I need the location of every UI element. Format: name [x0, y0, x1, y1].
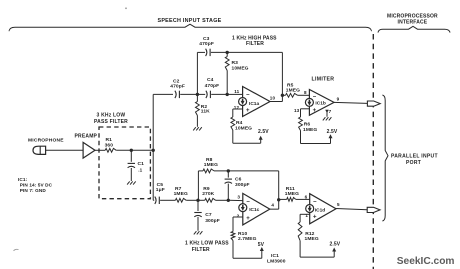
- svg-text:C4: C4: [207, 77, 214, 83]
- svg-text:PREAMP: PREAMP: [75, 133, 98, 139]
- label IC1a: [249, 101, 259, 107]
- capacitor C5: [155, 197, 160, 204]
- dashed box 3kHz low pass filter: [99, 127, 150, 199]
- svg-text:C6: C6: [235, 177, 242, 183]
- wire IC1d output: [336, 209, 367, 210]
- label 2.5V b: [327, 129, 338, 135]
- op-amp IC1b: [305, 90, 334, 116]
- svg-text:3 KHz LOW: 3 KHz LOW: [97, 112, 126, 118]
- label C7 300pF: [205, 212, 220, 224]
- op-amp IC1d: [306, 194, 336, 224]
- label R7 1MEG: [174, 186, 188, 197]
- wire R12 to 2.5V: [300, 241, 334, 257]
- svg-text:IC1d: IC1d: [315, 207, 325, 213]
- svg-text:IC1a: IC1a: [249, 101, 259, 107]
- svg-text:IC1b: IC1b: [315, 101, 325, 107]
- node D: [226, 93, 229, 96]
- op-amp IC1a: [239, 87, 270, 117]
- svg-text:5: 5: [337, 202, 340, 207]
- label PARALLEL INPUT PORT: [391, 154, 438, 166]
- wire pin12 to R4: [233, 109, 243, 117]
- svg-text:−: −: [313, 200, 317, 206]
- ground below R2: [193, 127, 202, 130]
- svg-text:C7: C7: [205, 212, 212, 218]
- svg-text:C1: C1: [138, 161, 145, 167]
- wire C3 to feedback corner: [211, 51, 283, 53]
- svg-text:PARALLEL INPUT: PARALLEL INPUT: [391, 154, 438, 160]
- wire pin7 stub: [325, 110, 329, 117]
- plus sign IC1c: [246, 216, 250, 222]
- svg-text:2.7MEG: 2.7MEG: [238, 236, 257, 242]
- svg-text:3: 3: [237, 195, 240, 200]
- svg-text:270K: 270K: [202, 191, 214, 197]
- svg-text:13: 13: [294, 108, 300, 113]
- op-amp IC1c: [239, 193, 270, 225]
- label pin 3: [237, 195, 240, 200]
- svg-text:+: +: [313, 108, 317, 114]
- label R4 10MEG: [235, 120, 252, 132]
- wire IC1b output: [334, 102, 367, 103]
- supply arrow 5V: [260, 247, 264, 258]
- label 1 KHz LOW PASS FILTER: [185, 241, 229, 253]
- wire node A to R9: [198, 199, 205, 201]
- label pin 8: [304, 90, 307, 95]
- svg-text:R8: R8: [206, 157, 213, 163]
- svg-text:−: −: [246, 93, 250, 99]
- wire R9 to node B: [216, 199, 229, 201]
- wire node D to IC1a: [227, 93, 242, 95]
- svg-text:LIMITER: LIMITER: [312, 77, 335, 83]
- plus sign IC1b: [313, 108, 317, 114]
- label LIMITER: [312, 77, 335, 83]
- svg-text:−: −: [246, 199, 250, 205]
- capacitor C1: [128, 150, 135, 181]
- svg-text:R5: R5: [287, 82, 294, 88]
- resistor R9: [205, 198, 216, 202]
- label R3 10MEG: [232, 60, 249, 71]
- wire riser to lowpass line: [153, 150, 154, 200]
- svg-text:4: 4: [271, 203, 274, 208]
- resistor R12: [298, 222, 302, 241]
- resistor R8: [203, 169, 214, 173]
- label C3 470pF: [199, 36, 214, 47]
- label R2 11K: [201, 104, 210, 115]
- capacitor C4: [206, 91, 211, 98]
- wire R7 to node A: [186, 199, 198, 201]
- svg-text:8: 8: [304, 90, 307, 95]
- label 2.5V c: [330, 242, 341, 248]
- svg-text:PIN 14: 5V DC: PIN 14: 5V DC: [20, 182, 53, 187]
- microphone symbol: [33, 146, 46, 154]
- wire node C riser up: [197, 52, 205, 94]
- wire R8 to node G: [214, 170, 279, 172]
- svg-text:IC1:: IC1:: [18, 177, 28, 182]
- resistor R2: [196, 94, 200, 126]
- svg-text:1MEG: 1MEG: [286, 87, 300, 93]
- ground below C1: [127, 181, 136, 184]
- resistor R11: [279, 198, 310, 202]
- svg-text:11: 11: [234, 89, 239, 94]
- svg-text:R10: R10: [238, 231, 247, 237]
- stray mark: [125, 7, 127, 9]
- dashed interface boundary line: [372, 34, 374, 269]
- label pin 13: [294, 108, 300, 113]
- plus sign IC1d: [313, 215, 317, 221]
- svg-text:R12: R12: [305, 231, 314, 237]
- wire node C to C4: [197, 93, 205, 95]
- label 1 KHz HIGH PASS FILTER: [232, 36, 277, 48]
- wire C4 to node D: [211, 93, 227, 95]
- resistor R7: [175, 198, 186, 202]
- label pin 9: [337, 96, 340, 101]
- label pin 5: [337, 202, 340, 207]
- svg-text:1MEG: 1MEG: [204, 162, 218, 168]
- svg-text:6: 6: [305, 194, 308, 199]
- label C4 470pF: [205, 77, 220, 89]
- label pin 2: [237, 214, 240, 219]
- svg-text:LM3900: LM3900: [267, 259, 286, 265]
- svg-text:10MEG: 10MEG: [235, 125, 252, 131]
- label R6 1MEG: [303, 122, 317, 133]
- svg-text:2.5V: 2.5V: [327, 129, 338, 135]
- svg-text:9: 9: [337, 96, 340, 101]
- label pin 1: [305, 213, 308, 218]
- label C5 1uF: [156, 182, 165, 193]
- plus sign IC1a: [246, 108, 250, 114]
- label IC1b: [315, 101, 325, 107]
- wire feedback down to node H: [278, 171, 280, 200]
- wire R10 to 5V: [233, 241, 262, 259]
- supply arrow 2.5V a: [259, 136, 263, 143]
- label MICROPHONE: [28, 138, 64, 144]
- svg-text:IC1: IC1: [271, 253, 279, 259]
- watermark SeekIC.com: [397, 256, 455, 267]
- label pin 6: [305, 194, 308, 199]
- svg-text:1MEG: 1MEG: [285, 191, 299, 197]
- svg-text:SPEECH INPUT STAGE: SPEECH INPUT STAGE: [157, 18, 221, 24]
- label IC1d: [315, 207, 325, 213]
- label IC1c: [249, 207, 259, 213]
- resistor R4: [231, 117, 235, 130]
- svg-text:PIN 7: GND: PIN 7: GND: [20, 188, 47, 193]
- wire riser to highpass line: [153, 94, 173, 150]
- node F top of R3: [226, 51, 229, 54]
- svg-text:MICROPHONE: MICROPHONE: [28, 138, 64, 144]
- resistor R10: [231, 232, 235, 241]
- label R8 1MEG: [204, 157, 218, 168]
- node H: [277, 198, 280, 201]
- svg-text:10MEG: 10MEG: [232, 65, 249, 71]
- label C1 value: [138, 161, 145, 173]
- minus sign IC1d: [313, 200, 317, 206]
- brace speech input stage: [9, 24, 372, 31]
- wire C2 to node C: [180, 93, 197, 95]
- wire R6 to 2.5V: [301, 131, 331, 144]
- svg-text:R4: R4: [236, 120, 243, 126]
- supply arrow 2.5V c: [332, 248, 336, 258]
- label pin 7: [329, 109, 332, 114]
- wire pin13 to R6: [301, 109, 310, 117]
- ground below C7: [194, 231, 203, 234]
- label SPEECH INPUT STAGE: [157, 18, 221, 24]
- svg-text:.1: .1: [138, 168, 142, 173]
- node E: [281, 94, 284, 97]
- svg-text:1: 1: [305, 213, 308, 218]
- label pin 12: [234, 105, 240, 110]
- svg-text:5V: 5V: [258, 242, 265, 248]
- minus sign IC1a: [246, 93, 250, 99]
- port arrow upper: [367, 101, 380, 106]
- label pin 4: [271, 203, 274, 208]
- supply arrow 2.5V b: [329, 134, 333, 143]
- svg-text:+: +: [246, 108, 250, 114]
- svg-text:11K: 11K: [201, 109, 210, 115]
- label C6 300pF: [235, 177, 250, 188]
- svg-text:+: +: [246, 216, 250, 222]
- label R9 270K: [202, 186, 214, 197]
- label C2 470pF: [170, 78, 185, 89]
- svg-text:PORT: PORT: [406, 160, 421, 166]
- wire C5 to R7: [160, 199, 175, 201]
- stray mark lower left: [14, 249, 19, 251]
- svg-text:FILTER: FILTER: [192, 247, 210, 253]
- capacitor C2: [175, 91, 180, 98]
- svg-text:470pF: 470pF: [205, 83, 220, 89]
- label 5V: [258, 242, 265, 248]
- wire node A riser: [198, 171, 203, 200]
- label MICROPROCESSOR INTERFACE: [387, 14, 438, 26]
- svg-text:1MEG: 1MEG: [303, 127, 317, 133]
- node J2: [152, 149, 155, 152]
- svg-text:+: +: [313, 215, 317, 221]
- label PREAMP: [75, 133, 98, 139]
- node G top of C6: [227, 169, 230, 172]
- svg-text:FILTER: FILTER: [246, 41, 264, 47]
- label R1 360: [105, 137, 114, 148]
- node B: [227, 199, 230, 202]
- minus sign IC1b: [313, 94, 317, 100]
- minus sign IC1c: [246, 199, 250, 205]
- wire preamp to R1: [95, 149, 105, 151]
- svg-text:R11: R11: [286, 186, 295, 192]
- svg-text:1MEG: 1MEG: [305, 236, 319, 242]
- svg-text:300pF: 300pF: [205, 218, 220, 224]
- svg-text:2.5V: 2.5V: [258, 129, 269, 135]
- wire mic to preamp: [46, 149, 84, 151]
- capacitor C3: [206, 49, 211, 56]
- svg-text:INTERFACE: INTERFACE: [398, 19, 428, 25]
- label R10 2.7MEG: [238, 231, 257, 242]
- svg-text:470pF: 470pF: [170, 84, 185, 90]
- svg-text:1 KHz LOW PASS: 1 KHz LOW PASS: [185, 241, 229, 247]
- svg-text:R3: R3: [232, 60, 239, 66]
- node A: [196, 199, 199, 202]
- note IC1 = LM3900: [267, 253, 286, 265]
- label R12 1MEG: [305, 231, 319, 242]
- label 2.5V a: [258, 129, 269, 135]
- resistor R3: [225, 52, 229, 94]
- capacitor C7: [194, 200, 201, 231]
- label pin 11: [234, 89, 239, 94]
- wire IC1a output to node E: [270, 95, 282, 101]
- port arrow lower: [367, 207, 380, 212]
- label pin 10: [270, 96, 276, 101]
- brace parallel input port: [382, 95, 388, 221]
- wire IC1c output to node H: [270, 200, 279, 209]
- svg-text:IC1c: IC1c: [249, 207, 259, 213]
- label R5 1MEG: [286, 82, 300, 93]
- wire R4 to 2.5V: [233, 130, 261, 143]
- wire R1 to node J2: [116, 149, 153, 151]
- resistor R1: [105, 148, 116, 152]
- wire node B to IC1c: [228, 199, 243, 201]
- svg-text:−: −: [313, 94, 317, 100]
- svg-text:1MEG: 1MEG: [174, 191, 188, 197]
- resistor R6: [299, 117, 303, 131]
- svg-text:1μF: 1μF: [156, 187, 165, 193]
- resistor R5: [282, 93, 309, 97]
- svg-text:10: 10: [270, 96, 276, 101]
- note IC1 pins: [18, 177, 53, 193]
- svg-text:C2: C2: [173, 78, 180, 84]
- svg-text:300pF: 300pF: [235, 182, 250, 188]
- svg-text:2.5V: 2.5V: [330, 242, 341, 248]
- svg-text:SeekIC.com: SeekIC.com: [397, 256, 455, 267]
- wire pin2 to R10: [233, 217, 243, 232]
- node J1: [130, 149, 133, 152]
- capacitor C6: [225, 171, 232, 200]
- svg-text:360: 360: [105, 142, 114, 148]
- label R11 1MEG: [285, 186, 299, 197]
- wire pin1 to R12: [300, 214, 310, 222]
- node C: [196, 93, 199, 96]
- svg-text:PASS FILTER: PASS FILTER: [94, 119, 128, 125]
- svg-text:7: 7: [329, 109, 332, 114]
- brace microprocessor interface: [378, 26, 450, 32]
- ground at pin 7: [323, 117, 332, 120]
- label 3 KHz LOW PASS FILTER: [94, 112, 128, 125]
- svg-text:2: 2: [237, 214, 240, 219]
- wire feedback down to node E: [281, 52, 283, 95]
- svg-text:470pF: 470pF: [199, 41, 214, 47]
- svg-text:R6: R6: [304, 122, 311, 128]
- preamp amplifier A1: [83, 142, 95, 158]
- svg-text:R1: R1: [106, 137, 113, 143]
